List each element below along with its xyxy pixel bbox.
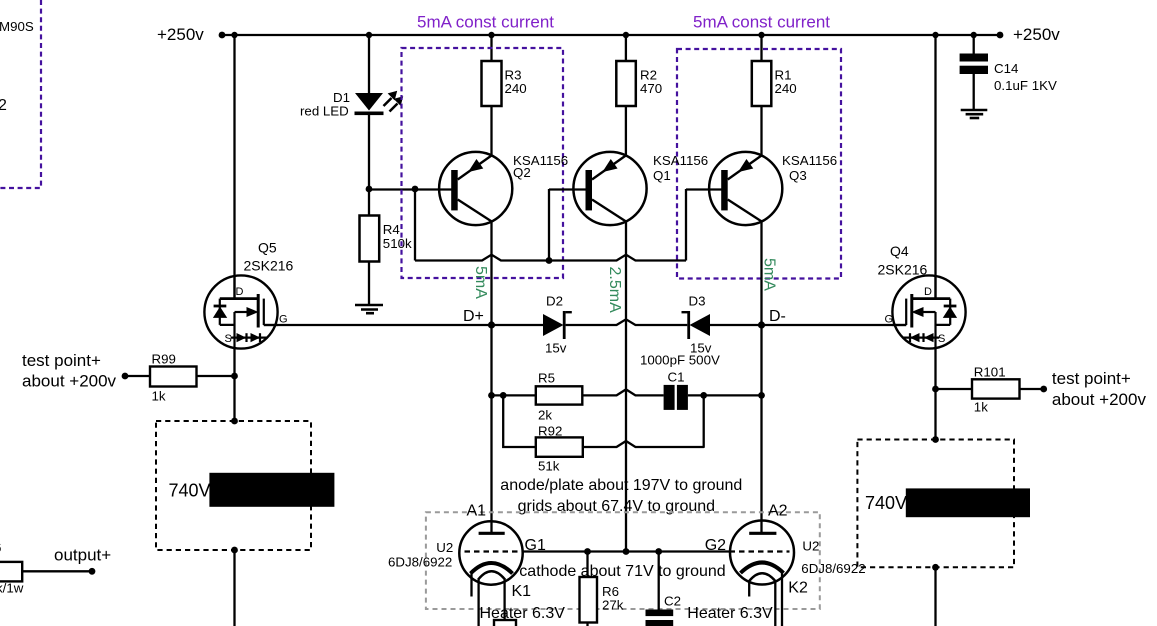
svg-text:240: 240: [775, 81, 797, 96]
capacitor C14: [960, 54, 988, 62]
mosfet Q5 2SK216: [204, 275, 278, 348]
svg-text:6DJ8/6922: 6DJ8/6922: [388, 555, 452, 570]
svg-text:U2: U2: [802, 539, 819, 554]
svg-text:+250v: +250v: [1013, 25, 1060, 44]
svg-text:D2: D2: [546, 294, 563, 309]
wire Q1 collector down (center column): [625, 222, 627, 552]
svg-text:S: S: [938, 333, 945, 345]
svg-text:2SK216: 2SK216: [244, 258, 294, 274]
tube U2 triode A2: [730, 521, 794, 585]
wire R4 to ground: [368, 262, 370, 306]
svg-text:K1: K1: [512, 583, 532, 600]
node +250v left: [219, 32, 226, 39]
A2 heater stub: [748, 581, 750, 597]
svg-text:R92: R92: [538, 424, 562, 439]
resistor R4: [368, 189, 370, 216]
svg-text:+250v: +250v: [157, 25, 204, 44]
svg-text:R101: R101: [974, 365, 1006, 380]
wire Q3 base: [686, 188, 723, 190]
wire rail to Q5 drain: [233, 35, 235, 298]
A2 cathode arc: [741, 563, 784, 574]
svg-text:A2: A2: [768, 503, 788, 520]
resistor R101: [936, 388, 973, 390]
svg-text:740V: 740V: [865, 493, 907, 513]
740V dashed box right: [857, 440, 1014, 568]
svg-text:2k: 2k: [538, 408, 552, 423]
tube U2 triode A1: [459, 521, 522, 584]
svg-text:240: 240: [505, 81, 527, 96]
svg-text:M90S: M90S: [0, 19, 34, 34]
svg-text:Heater 6.3V: Heater 6.3V: [480, 605, 566, 622]
wire base drop to bus: [414, 189, 416, 261]
svg-text:5mA: 5mA: [761, 258, 778, 291]
svg-text:1k: 1k: [974, 400, 988, 415]
A2 plate bar: [749, 532, 776, 535]
wire C14 to ground: [973, 74, 975, 110]
svg-text:about +200v: about +200v: [22, 372, 117, 391]
wire plate column right: [760, 395, 762, 532]
svg-text:5mA: 5mA: [472, 266, 489, 299]
wire D3 to Q4 gate: [710, 324, 906, 326]
wire D1 to node: [368, 115, 370, 189]
purple dashed box left (5mA const current): [402, 48, 564, 278]
wire rail to R1: [760, 35, 762, 61]
gray dashed box tubes: [426, 512, 820, 609]
wire rail to C14: [973, 35, 975, 54]
svg-text:R4: R4: [383, 222, 400, 237]
740V black bar right: [906, 488, 1030, 517]
svg-text:D+: D+: [463, 308, 484, 325]
base bus wire with hops: [415, 255, 686, 261]
LED D1: [355, 93, 383, 111]
wire R92 right with hop: [583, 395, 704, 447]
wire Q5 source down: [233, 348, 235, 421]
svg-text:C2: C2: [664, 594, 681, 609]
resistor R5: [492, 394, 536, 396]
wire Q4 source down: [934, 348, 936, 440]
node base drop: [412, 186, 419, 193]
svg-text:S: S: [225, 333, 232, 345]
svg-text:red LED: red LED: [300, 104, 349, 119]
svg-text:G: G: [279, 314, 288, 326]
svg-text:C14: C14: [994, 61, 1018, 76]
wire R3 to Q2 emitter: [490, 106, 492, 157]
+250v rail: [222, 34, 1000, 36]
svg-text:51k: 51k: [538, 459, 560, 474]
node R92 branch left: [500, 392, 507, 399]
wire 740V box left to bottom: [233, 550, 235, 626]
node R99 junction: [231, 373, 238, 380]
wire R1 to Q3 emitter: [760, 106, 762, 157]
svg-text:c2: c2: [0, 97, 7, 114]
R92 branch left drop: [503, 395, 536, 447]
svg-text:test point+: test point+: [1052, 369, 1131, 388]
resistor R3: [482, 61, 502, 106]
ground (C14): [961, 110, 988, 118]
svg-text:D3: D3: [689, 294, 706, 309]
resistor R2: [616, 61, 636, 106]
wire rail to R3: [490, 35, 492, 61]
svg-text:0.1uF 1KV: 0.1uF 1KV: [994, 78, 1057, 93]
A1 heater arc: [479, 571, 505, 579]
resistor R6: [586, 552, 588, 578]
transistor Q3 KSA1156: [709, 152, 782, 225]
A1 K1 lead: [503, 578, 505, 620]
svg-text:R5: R5: [538, 371, 555, 386]
resistor R92: [536, 437, 583, 456]
wire node to Q2 base: [369, 188, 453, 190]
svg-text:C1: C1: [668, 370, 685, 385]
A1 cathode stub: [470, 571, 472, 597]
top-left partial purple dashed box: [0, 0, 41, 188]
svg-text:1k: 1k: [152, 389, 166, 404]
wire rail to Q4 drain: [934, 35, 936, 298]
svg-text:D: D: [236, 286, 244, 298]
svg-text:6: 6: [0, 540, 1, 555]
svg-text:2SK216: 2SK216: [878, 262, 928, 278]
svg-text:5mA const current: 5mA const current: [417, 13, 554, 32]
svg-text:KSA1156: KSA1156: [782, 153, 837, 168]
svg-text:27k: 27k: [602, 598, 624, 613]
svg-text:about +200v: about +200v: [1052, 390, 1147, 409]
svg-text:Q3: Q3: [789, 168, 807, 183]
A1 cathode arc: [471, 563, 513, 574]
wire Q3 collector down: [760, 222, 762, 396]
A2 K2 lead: [781, 570, 783, 626]
svg-text:Q4: Q4: [890, 243, 909, 259]
transistor Q2 KSA1156: [439, 152, 512, 225]
wire output+: [22, 570, 92, 572]
svg-text:test point+: test point+: [22, 351, 101, 370]
capacitor C2: [658, 552, 660, 610]
LED light arrows: [384, 92, 403, 112]
A2 heater lead: [774, 581, 776, 626]
svg-text:470: 470: [640, 81, 662, 96]
main gate wire Q5 to D2: [264, 324, 543, 326]
svg-text:R99: R99: [152, 352, 176, 367]
svg-text:G2: G2: [705, 537, 726, 554]
A2 grid dashes: [730, 550, 790, 552]
transistor Q1 KSA1156: [573, 152, 646, 225]
node C2 top: [655, 548, 662, 555]
svg-text:2.5mA: 2.5mA: [606, 267, 623, 314]
svg-text:D-: D-: [769, 308, 786, 325]
svg-text:15v: 15v: [545, 341, 567, 356]
svg-text:k/1w: k/1w: [0, 581, 24, 596]
wire C1 to node right: [688, 394, 762, 396]
svg-text:Q1: Q1: [653, 168, 671, 183]
node R6 top: [584, 548, 591, 555]
wire rail to D1: [368, 35, 370, 93]
purple dashed box right (5mA const current): [677, 49, 841, 279]
node R5/R92 left: [488, 392, 495, 399]
svg-text:output+: output+: [54, 546, 111, 565]
capacitor C1 plates: [664, 385, 675, 410]
A1 heater lead: [477, 578, 479, 626]
A2 heater arc: [749, 573, 775, 581]
svg-text:U2: U2: [436, 540, 453, 555]
wire D2 to hop to D3: [566, 319, 688, 325]
node D1/R4/base: [366, 186, 373, 193]
node +250v right: [997, 32, 1004, 39]
output+ partial resistor: [0, 562, 22, 582]
svg-text:cathode about 71V to ground: cathode about 71V to ground: [519, 563, 725, 580]
svg-text:Q2: Q2: [513, 165, 531, 180]
node D+: [488, 321, 495, 328]
mosfet Q4 2SK216 (mirrored): [892, 275, 966, 348]
ground (R4): [355, 305, 383, 313]
svg-text:D: D: [924, 286, 932, 298]
A1 plate bar: [479, 532, 505, 535]
A1 grid dashes: [465, 550, 524, 552]
svg-text:740V: 740V: [169, 481, 211, 501]
wire 740V box right to bottom: [934, 567, 936, 626]
wire R5 to C1 with hop: [582, 389, 663, 395]
wire Q1 base: [549, 188, 587, 190]
svg-text:1000pF 500V: 1000pF 500V: [640, 353, 720, 368]
node plate column right: [758, 392, 765, 399]
svg-text:Heater 6.3V: Heater 6.3V: [687, 605, 773, 622]
resistor R1: [752, 61, 772, 106]
740V black bar left: [209, 473, 334, 507]
zener diode D3 15v: [690, 314, 711, 336]
svg-text:KSA1156: KSA1156: [653, 153, 708, 168]
node D-: [758, 321, 765, 328]
zener diode D2 15v: [543, 314, 564, 336]
resistor R99: [125, 375, 150, 377]
svg-text:Q5: Q5: [258, 240, 277, 256]
svg-text:G: G: [885, 314, 894, 326]
node R101 junction: [932, 386, 939, 393]
740V dashed box left: [156, 421, 311, 550]
node R92 branch right: [700, 392, 707, 399]
wire R2 to Q1 emitter: [625, 106, 627, 157]
node bus to Q1 base: [546, 257, 553, 264]
svg-text:anode/plate about 197V to grou: anode/plate about 197V to ground: [500, 477, 742, 494]
wire plate column left: [490, 395, 492, 532]
svg-text:A1: A1: [467, 503, 487, 520]
wire Q2 collector down: [490, 222, 492, 396]
grid wire G1-G2: [523, 550, 730, 552]
wire rail to R2: [625, 35, 627, 61]
K1 bottom box: [494, 620, 516, 626]
svg-text:K2: K2: [788, 580, 808, 597]
svg-text:5mA const current: 5mA const current: [693, 13, 830, 32]
node grid column: [623, 548, 630, 555]
svg-text:6DJ8/6922: 6DJ8/6922: [801, 561, 865, 576]
svg-text:510k: 510k: [383, 236, 412, 251]
